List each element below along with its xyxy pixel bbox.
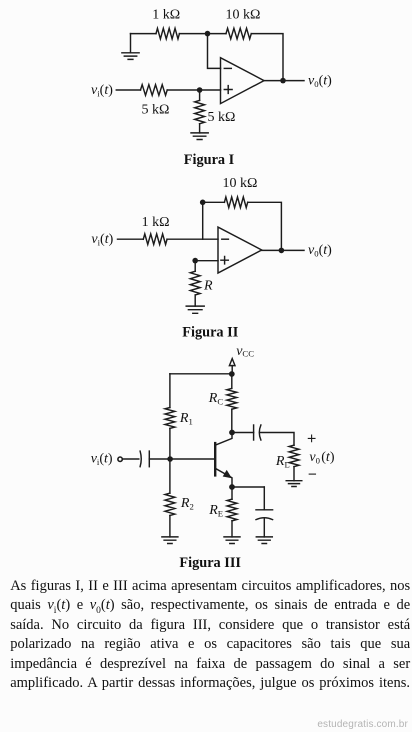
svg-text:Figura I: Figura I [184, 152, 235, 168]
svg-text:vCC: vCC [236, 344, 254, 359]
svg-text:vi(t): vi(t) [91, 83, 113, 99]
svg-text:5 kΩ: 5 kΩ [208, 110, 236, 125]
svg-text:RE: RE [208, 503, 223, 519]
svg-text:RC: RC [208, 391, 224, 407]
svg-text:1 kΩ: 1 kΩ [152, 8, 180, 23]
svg-text:1 kΩ: 1 kΩ [142, 215, 170, 230]
svg-text:v0(t): v0(t) [308, 243, 332, 259]
svg-text:10 kΩ: 10 kΩ [226, 8, 261, 23]
svg-text:v0(t): v0(t) [309, 450, 334, 466]
svg-text:10 kΩ: 10 kΩ [223, 176, 258, 191]
svg-text:R1: R1 [179, 411, 193, 427]
svg-text:Figura III: Figura III [179, 555, 241, 571]
svg-text:RL: RL [275, 454, 290, 470]
svg-text:v0(t): v0(t) [308, 74, 332, 90]
svg-text:Figura II: Figura II [182, 324, 238, 340]
svg-text:5 kΩ: 5 kΩ [142, 103, 170, 118]
svg-text:vi(t): vi(t) [91, 232, 113, 248]
svg-text:vi(t): vi(t) [91, 452, 113, 468]
svg-text:R2: R2 [180, 496, 194, 512]
svg-text:R: R [203, 279, 213, 294]
